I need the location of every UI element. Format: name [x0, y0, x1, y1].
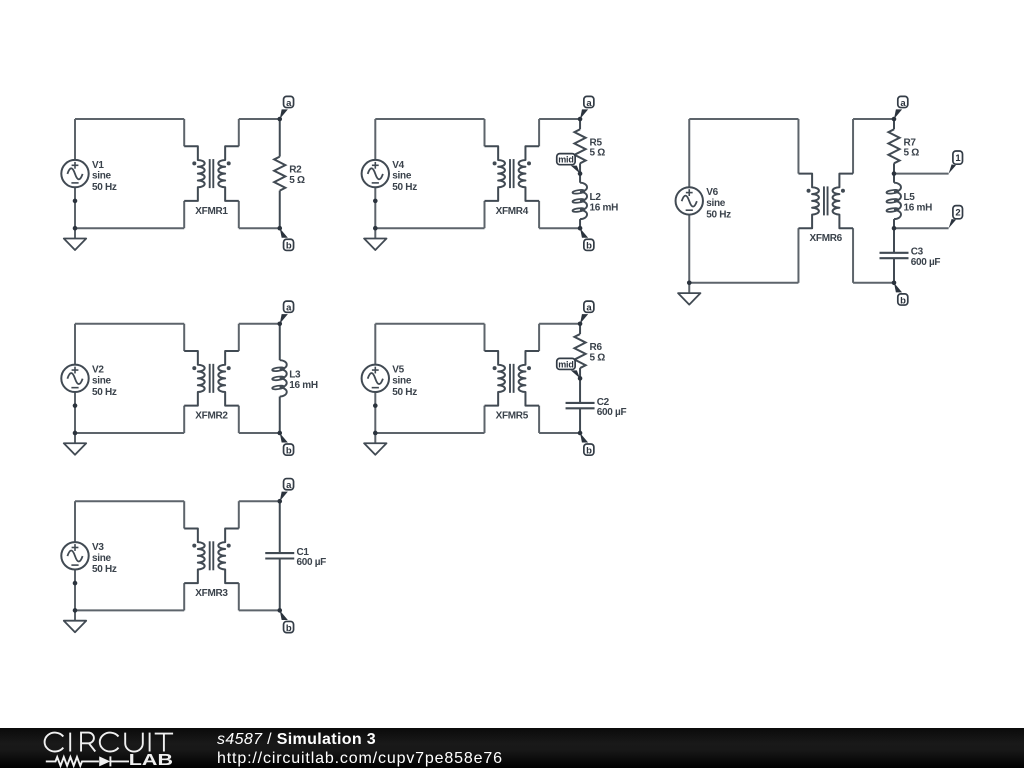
resistor R6 [574, 324, 605, 379]
svg-text:5 Ω: 5 Ω [590, 352, 606, 363]
transformer XFMR3 [184, 529, 239, 600]
wire [539, 227, 580, 229]
svg-text:16 mH: 16 mH [590, 202, 619, 213]
wire [538, 406, 540, 433]
wire [75, 500, 184, 502]
wire [484, 406, 486, 433]
svg-text:sine: sine [92, 171, 112, 182]
node b [277, 608, 293, 634]
wire [538, 119, 540, 146]
wire [797, 119, 799, 174]
svg-text:16 mH: 16 mH [289, 380, 318, 391]
wire [688, 215, 690, 283]
svg-text:5 Ω: 5 Ω [289, 175, 305, 186]
wire [374, 324, 376, 365]
transformer XFMR1 [184, 146, 239, 217]
wire [75, 432, 184, 434]
ground [64, 610, 86, 632]
svg-text:mid: mid [558, 155, 573, 165]
node a [277, 479, 293, 504]
CircuitLab logo [45, 733, 174, 767]
voltage source V1 [61, 160, 117, 193]
wire [74, 119, 76, 160]
wire [375, 323, 484, 325]
wire [538, 324, 540, 351]
wire [74, 570, 76, 611]
capacitor C1 [265, 501, 326, 610]
junction [73, 226, 78, 231]
svg-text:5 Ω: 5 Ω [590, 148, 606, 159]
wire [688, 119, 690, 187]
svg-text:b: b [586, 241, 592, 252]
svg-text:V4: V4 [392, 160, 404, 171]
transformer XFMR4 [485, 146, 540, 217]
resistor R5 [574, 119, 605, 174]
junction [73, 608, 78, 613]
wire [183, 501, 185, 528]
ground [364, 228, 386, 250]
node a [277, 301, 293, 326]
svg-text:b: b [286, 623, 292, 634]
voltage source V4 [362, 160, 418, 193]
node a [578, 301, 594, 326]
wire [853, 282, 894, 284]
wire [689, 118, 798, 120]
node a [892, 96, 908, 121]
svg-text:sine: sine [92, 553, 112, 564]
svg-text:50 Hz: 50 Hz [706, 209, 731, 220]
wire [797, 228, 799, 283]
svg-text:50 Hz: 50 Hz [92, 182, 117, 193]
svg-text:600 µF: 600 µF [597, 407, 627, 418]
inductor L5 [886, 174, 932, 229]
junction [687, 281, 692, 286]
wire [539, 323, 580, 325]
wire [539, 432, 580, 434]
wire [375, 118, 484, 120]
svg-text:V3: V3 [92, 542, 104, 553]
ground [678, 283, 700, 305]
transformer XFMR2 [184, 351, 239, 422]
svg-text:50 Hz: 50 Hz [92, 564, 117, 575]
junction [373, 199, 378, 204]
junction [373, 431, 378, 436]
svg-text:b: b [286, 445, 292, 456]
resistor R2 [274, 119, 305, 228]
wire [484, 119, 486, 146]
wire [238, 201, 240, 228]
junction [73, 581, 78, 586]
junction [73, 199, 78, 204]
wire [689, 282, 798, 284]
wire [238, 324, 240, 351]
wire [238, 119, 240, 146]
wire [374, 187, 376, 228]
junction [73, 431, 78, 436]
svg-text:b: b [586, 445, 592, 456]
svg-text:5 Ω: 5 Ω [904, 148, 920, 159]
node 1 [949, 151, 963, 174]
wire [183, 201, 185, 228]
wire [484, 324, 486, 351]
junction [373, 403, 378, 408]
junction [373, 226, 378, 231]
wire [74, 392, 76, 433]
wire [238, 583, 240, 610]
wire [375, 227, 484, 229]
wire [74, 187, 76, 228]
node mid [557, 358, 583, 380]
node b [277, 226, 293, 252]
node mid [557, 154, 583, 176]
wire [239, 118, 280, 120]
ground [64, 433, 86, 455]
voltage source V6 [676, 187, 732, 220]
wire [183, 119, 185, 146]
capacitor C3 [880, 228, 941, 283]
wire [375, 432, 484, 434]
voltage source V5 [362, 365, 418, 398]
svg-text:b: b [900, 295, 906, 306]
svg-text:mid: mid [558, 359, 573, 369]
wire [484, 201, 486, 228]
svg-text:sine: sine [706, 198, 726, 209]
transformer XFMR6 [798, 174, 853, 245]
node b [578, 431, 594, 457]
wire [238, 501, 240, 528]
svg-text:600 µF: 600 µF [911, 257, 941, 268]
svg-text:V1: V1 [92, 160, 104, 171]
wire [75, 227, 184, 229]
voltage source V2 [61, 365, 117, 398]
svg-text:sine: sine [92, 375, 112, 386]
junction [892, 171, 897, 176]
wire [853, 118, 894, 120]
svg-text:b: b [286, 241, 292, 252]
svg-text:V2: V2 [92, 365, 104, 376]
wire [75, 609, 184, 611]
junction [892, 226, 897, 231]
wire [852, 119, 854, 174]
node b [277, 431, 293, 457]
wire [238, 406, 240, 433]
svg-text:50 Hz: 50 Hz [92, 387, 117, 398]
svg-text:XFMR4: XFMR4 [496, 206, 529, 217]
resistor R7 [888, 119, 919, 174]
wire [374, 119, 376, 160]
wire [183, 406, 185, 433]
inductor L3 [272, 324, 318, 433]
wire [374, 392, 376, 433]
wire [75, 118, 184, 120]
svg-text:50 Hz: 50 Hz [392, 387, 417, 398]
ground [64, 228, 86, 250]
wire [539, 118, 580, 120]
wire [894, 173, 949, 175]
wire [239, 500, 280, 502]
svg-text:sine: sine [392, 375, 412, 386]
node a [578, 96, 594, 121]
svg-text:16 mH: 16 mH [904, 202, 933, 213]
footer bar [0, 728, 1024, 768]
svg-text:XFMR1: XFMR1 [195, 206, 228, 217]
svg-text:XFMR3: XFMR3 [195, 588, 228, 599]
svg-text:50 Hz: 50 Hz [392, 182, 417, 193]
wire [183, 324, 185, 351]
svg-text:V6: V6 [706, 187, 718, 198]
wire [239, 609, 280, 611]
node 2 [949, 206, 963, 229]
node a [277, 96, 293, 121]
voltage source V3 [61, 542, 117, 575]
svg-text:XFMR2: XFMR2 [195, 411, 228, 422]
wire [183, 583, 185, 610]
inductor L2 [572, 174, 618, 229]
node b [578, 226, 594, 252]
wire [74, 324, 76, 365]
wire [239, 432, 280, 434]
svg-text:XFMR6: XFMR6 [810, 233, 843, 244]
wire [74, 501, 76, 542]
node b [892, 281, 908, 307]
wire [239, 323, 280, 325]
junction [73, 403, 78, 408]
ground [364, 433, 386, 455]
svg-text:XFMR5: XFMR5 [496, 411, 529, 422]
wire [75, 323, 184, 325]
transformer XFMR5 [485, 351, 540, 422]
svg-text:600 µF: 600 µF [296, 557, 326, 568]
svg-text:V5: V5 [392, 365, 404, 376]
wire [894, 227, 949, 229]
capacitor C2 [566, 378, 627, 433]
svg-text:sine: sine [392, 171, 412, 182]
wire [538, 201, 540, 228]
wire [852, 228, 854, 283]
wire [239, 227, 280, 229]
svg-text:2: 2 [955, 207, 960, 218]
